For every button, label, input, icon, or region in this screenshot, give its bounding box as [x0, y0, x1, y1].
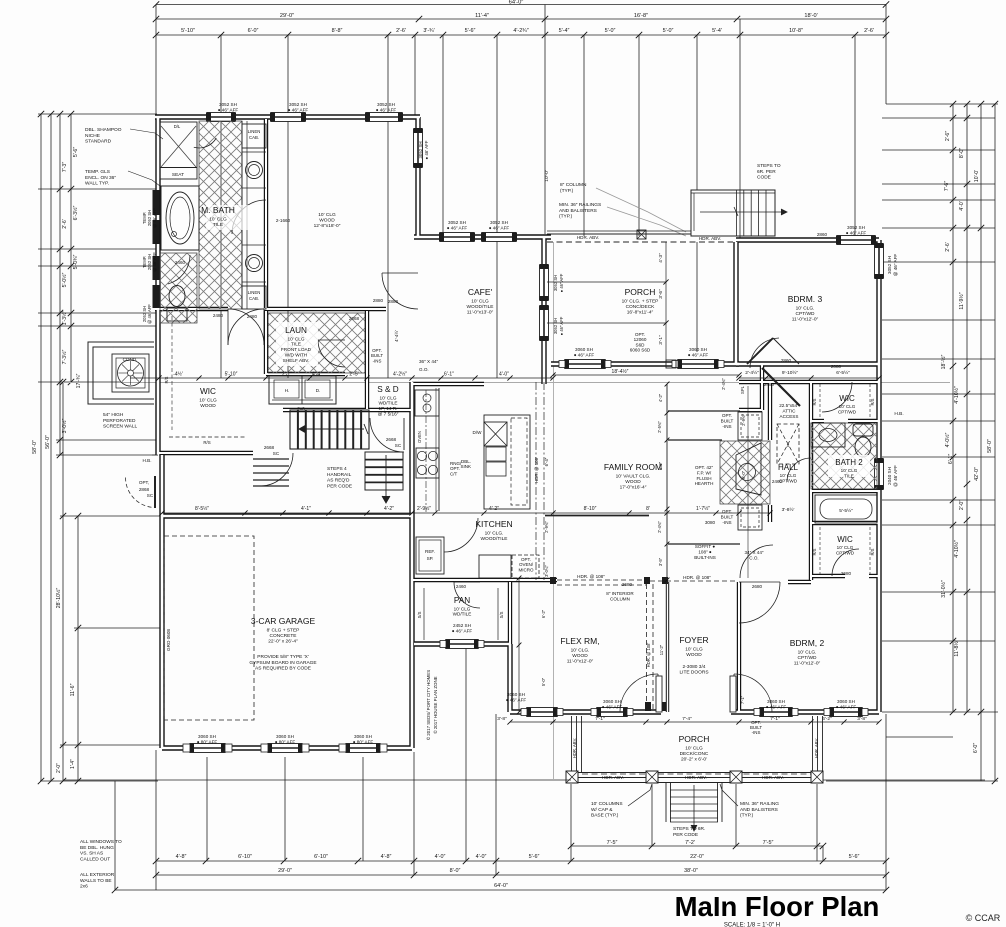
svg-text:OPT.: OPT. [722, 413, 732, 418]
svg-text:FLUSH: FLUSH [696, 476, 711, 481]
svg-text:5'-6″: 5'-6″ [73, 147, 79, 157]
svg-text:2'-6': 2'-6' [396, 28, 406, 34]
svg-text:10' CLG. + STEP: 10' CLG. + STEP [622, 298, 659, 304]
svg-text:3'-8″: 3'-8″ [497, 716, 507, 722]
svg-text:3080: 3080 [705, 520, 716, 525]
svg-text:2'-0″: 2'-0″ [959, 500, 965, 510]
svg-text:5'-0″: 5'-0″ [663, 28, 674, 34]
svg-text:WOOD: WOOD [686, 652, 702, 658]
svg-text:BUILT-INS: BUILT-INS [694, 555, 716, 560]
svg-text:3'-0¼″: 3'-0¼″ [544, 565, 549, 577]
svg-text:© CCAR: © CCAR [966, 913, 1001, 923]
svg-text:FLEX RM,: FLEX RM, [560, 636, 599, 646]
svg-text:D/L: D/L [174, 124, 181, 129]
svg-text:SOFFIT ●: SOFFIT ● [695, 544, 716, 549]
svg-text:PERFORATED: PERFORATED [103, 418, 136, 424]
svg-text:17'-¾″: 17'-¾″ [76, 374, 82, 389]
svg-text:54″ HIGH: 54″ HIGH [103, 412, 124, 418]
svg-text:CAB.: CAB. [249, 135, 259, 140]
svg-text:BATH 2: BATH 2 [835, 458, 863, 467]
svg-text:2'-5': 2'-5' [349, 372, 358, 378]
svg-text:● 80″ AFF: ● 80″ AFF [197, 739, 218, 744]
svg-text:2880: 2880 [373, 298, 384, 303]
svg-text:1P, 14 R.: 1P, 14 R. [379, 406, 398, 411]
svg-text:8'-0″: 8'-0″ [450, 868, 461, 874]
svg-text:4'-2″: 4'-2″ [658, 393, 663, 402]
svg-text:7'-5″: 7'-5″ [763, 840, 774, 846]
svg-text:2'-4¾″: 2'-4¾″ [657, 521, 662, 533]
svg-text:3060 SH: 3060 SH [198, 734, 216, 739]
svg-text:FOYER: FOYER [679, 635, 708, 645]
svg-text:6'-2″: 6'-2″ [822, 716, 832, 722]
svg-text:WIC: WIC [839, 394, 855, 403]
svg-text:6060 S6D: 6060 S6D [630, 348, 651, 353]
svg-text:3060 SH: 3060 SH [276, 734, 294, 739]
svg-text:5'-5½″: 5'-5½″ [839, 507, 853, 514]
svg-text:● 46' AFF: ● 46' AFF [424, 140, 429, 159]
svg-text:4'-10½″: 4'-10½″ [953, 386, 960, 404]
svg-text:8″ INTERIOR: 8″ INTERIOR [606, 591, 634, 596]
svg-text:CONC/DECK: CONC/DECK [626, 304, 656, 310]
svg-text:6'-4″: 6'-4″ [544, 457, 549, 466]
svg-text:SC: SC [395, 443, 402, 448]
svg-text:S/S: S/S [417, 611, 422, 618]
svg-text:2480: 2480 [247, 314, 258, 319]
svg-text:22.5″x54″: 22.5″x54″ [779, 403, 799, 408]
svg-text:3'-8½': 3'-8½' [782, 506, 795, 513]
svg-text:11'-0″x12'-0″: 11'-0″x12'-0″ [792, 317, 819, 323]
svg-text:8″ COLUMN: 8″ COLUMN [560, 182, 587, 188]
svg-text:CAB.: CAB. [249, 296, 259, 301]
svg-text:34″ X 44″: 34″ X 44″ [744, 550, 763, 555]
svg-text:8'-8″: 8'-8″ [332, 28, 343, 34]
svg-text:10' VAULT CLG.: 10' VAULT CLG. [616, 473, 651, 479]
svg-text:R/S: R/S [164, 376, 169, 383]
svg-text:6'-3½″: 6'-3½″ [72, 206, 79, 221]
svg-text:3052 SH: 3052 SH [448, 220, 466, 225]
svg-text:3052 SH: 3052 SH [490, 220, 508, 225]
svg-text:2452 SH: 2452 SH [453, 623, 471, 628]
svg-text:5'-4': 5'-4' [712, 28, 722, 34]
svg-text:8'-5½″: 8'-5½″ [195, 505, 209, 512]
svg-text:(TYP.): (TYP.) [740, 813, 754, 819]
svg-text:10' CLG: 10' CLG [199, 397, 217, 403]
svg-text:TILE: TILE [213, 222, 223, 228]
svg-text:DBL. SHAMPOO: DBL. SHAMPOO [85, 127, 122, 133]
svg-text:4'-8″: 4'-8″ [381, 854, 392, 860]
svg-text:22'-0″ x 26'-4″: 22'-0″ x 26'-4″ [268, 639, 298, 645]
svg-text:7'-1″: 7'-1″ [595, 716, 605, 722]
svg-text:31'-0½″: 31'-0½″ [940, 580, 947, 598]
svg-text:OPT.: OPT. [722, 509, 732, 514]
svg-text:3060 SH: 3060 SH [689, 347, 707, 352]
svg-text:2860: 2860 [817, 232, 828, 237]
svg-text:10' CLG: 10' CLG [780, 473, 797, 478]
svg-text:● 46″ AFF: ● 46″ AFF [836, 704, 857, 709]
svg-text:10' CLG: 10' CLG [379, 395, 396, 400]
svg-text:LITE DOORS: LITE DOORS [679, 670, 708, 676]
svg-text:3052 SH: 3052 SH [847, 225, 865, 230]
svg-text:MaIn Floor Plan: MaIn Floor Plan [675, 891, 880, 922]
svg-text:108″ ●: 108″ ● [698, 549, 712, 554]
svg-text:4'-8″: 4'-8″ [176, 854, 187, 860]
svg-text:C.O.: C.O. [749, 555, 758, 560]
svg-text:2-3080 3/4: 2-3080 3/4 [683, 664, 706, 670]
svg-text:● 46″ AFF: ● 46″ AFF [846, 230, 867, 235]
svg-text:3052 SH: 3052 SH [553, 318, 558, 334]
svg-text:● 46″ AFF: ● 46″ AFF [559, 273, 564, 292]
svg-text:HDR. ABV.: HDR. ABV. [602, 775, 624, 780]
svg-text:2868: 2868 [139, 487, 150, 492]
svg-text:MIN. 36″ RAILING: MIN. 36″ RAILING [740, 801, 779, 807]
svg-text:10' CLG.: 10' CLG. [571, 647, 590, 653]
svg-text:(TYP.): (TYP.) [560, 188, 574, 194]
svg-text:● 46″ AFF: ● 46″ AFF [489, 225, 510, 230]
svg-text:H.: H. [285, 388, 290, 393]
svg-text:MICRO: MICRO [519, 567, 534, 572]
svg-text:38'-0″: 38'-0″ [684, 868, 698, 874]
svg-text:2668: 2668 [264, 445, 275, 450]
svg-text:3052 SH: 3052 SH [219, 102, 237, 107]
svg-text:(TYP.): (TYP.) [559, 214, 573, 220]
svg-text:LINEN: LINEN [248, 129, 261, 134]
svg-text:5'-0″: 5'-0″ [605, 28, 616, 34]
svg-text:3060 SH: 3060 SH [837, 699, 855, 704]
svg-text:2'-4¾″: 2'-4¾″ [721, 378, 726, 390]
svg-text:10' CLG: 10' CLG [454, 606, 471, 611]
svg-text:S & D: S & D [377, 385, 398, 394]
svg-text:@ 46' AFF: @ 46' AFF [152, 252, 157, 272]
svg-text:4'-2½″: 4'-2½″ [393, 371, 407, 378]
svg-text:CAFE': CAFE' [468, 287, 493, 297]
svg-text:2668: 2668 [386, 437, 397, 442]
svg-text:3060 SH: 3060 SH [603, 699, 621, 704]
svg-text:2'-6″: 2'-6″ [945, 131, 951, 141]
svg-text:3060 SH: 3060 SH [575, 347, 593, 352]
svg-text:GRO 0608: GRO 0608 [166, 629, 171, 651]
svg-text:R/S: R/S [870, 548, 875, 555]
svg-text:6'-10″: 6'-10″ [314, 854, 328, 860]
svg-text:GYPSUM BOARD IN GARAGE: GYPSUM BOARD IN GARAGE [249, 660, 316, 666]
svg-text:4'-4½': 4'-4½' [394, 330, 399, 342]
svg-text:CPT/WD: CPT/WD [796, 311, 815, 317]
svg-text:4'-0': 4'-0' [959, 201, 965, 210]
svg-text:R/S: R/S [203, 440, 210, 445]
svg-text:3-CAR GARAGE: 3-CAR GARAGE [251, 616, 316, 626]
svg-text:5'-6″: 5'-6″ [465, 28, 476, 34]
svg-text:STEPS TO 6R.: STEPS TO 6R. [673, 826, 705, 832]
svg-text:42'-0″: 42'-0″ [974, 467, 980, 481]
svg-text:WALL TYP.: WALL TYP. [85, 181, 109, 187]
svg-text:BUILT: BUILT [721, 418, 734, 423]
svg-text:4'-1″: 4'-1″ [301, 506, 311, 512]
svg-text:TILE: TILE [291, 342, 301, 347]
svg-text:VS. SH AS: VS. SH AS [80, 851, 103, 857]
svg-text:● 46″ AFF: ● 46″ AFF [376, 107, 397, 112]
svg-text:CONCRETE: CONCRETE [270, 633, 297, 639]
svg-text:LINEN: LINEN [248, 290, 261, 295]
svg-text:58'-0″: 58'-0″ [987, 439, 993, 453]
svg-text:H.B.: H.B. [143, 458, 152, 463]
svg-text:D.: D. [316, 388, 321, 393]
svg-text:6'-10″: 6'-10″ [238, 854, 252, 860]
svg-text:WD/TILE: WD/TILE [378, 401, 397, 406]
svg-text:10' CLG: 10' CLG [685, 745, 703, 751]
svg-text:22'-0″: 22'-0″ [690, 854, 704, 860]
svg-text:2'-9¾″: 2'-9¾″ [741, 414, 746, 426]
svg-text:5'-10″: 5'-10″ [225, 372, 238, 378]
svg-text:WOOD/TILE: WOOD/TILE [467, 304, 494, 310]
svg-text:4'-2¾″: 4'-2¾″ [513, 28, 528, 34]
svg-text:4'-10½″: 4'-10½″ [953, 540, 960, 558]
svg-text:PORCH: PORCH [625, 287, 656, 297]
svg-text:HDR. ABV.: HDR. ABV. [685, 775, 707, 780]
svg-text:10'-8″: 10'-8″ [789, 28, 803, 34]
svg-text:3052 SH: 3052 SH [289, 102, 307, 107]
svg-text:PAN: PAN [454, 596, 470, 605]
svg-text:STANDARD: STANDARD [85, 139, 112, 145]
svg-text:WOOD/TILE: WOOD/TILE [481, 536, 508, 542]
svg-text:3'-0½″: 3'-0½″ [61, 419, 68, 434]
svg-text:3060 SH: 3060 SH [507, 692, 525, 697]
svg-text:STEPS TO: STEPS TO [757, 163, 781, 169]
svg-text:● 80″ AFF: ● 80″ AFF [275, 739, 296, 744]
svg-text:2460: 2460 [456, 584, 467, 589]
svg-text:SCALE: 1/8 = 1'-0″ H: SCALE: 1/8 = 1'-0″ H [724, 923, 780, 927]
svg-text:2'-0″: 2'-0″ [56, 763, 62, 773]
svg-text:DECK/CONC: DECK/CONC [680, 751, 709, 757]
svg-text:HDR. @ 108″: HDR. @ 108″ [577, 574, 605, 579]
svg-text:SINK: SINK [460, 464, 471, 469]
svg-text:AND BALISTERS: AND BALISTERS [740, 807, 778, 813]
svg-text:TEMP. GLS: TEMP. GLS [85, 169, 110, 175]
svg-text:29'-0″: 29'-0″ [280, 13, 294, 19]
svg-text:6'-1″: 6'-1″ [444, 372, 454, 378]
svg-text:16'-8″: 16'-8″ [634, 13, 648, 19]
svg-text:HDR. ABV.: HDR. ABV. [577, 235, 599, 240]
svg-text:2480: 2480 [213, 313, 224, 318]
svg-text:11'-0″x13'-0″: 11'-0″x13'-0″ [467, 310, 494, 316]
svg-text:WOOD: WOOD [572, 653, 588, 659]
svg-text:@ 7 5/16″: @ 7 5/16″ [378, 411, 399, 416]
svg-text:10' CLG: 10' CLG [471, 298, 489, 304]
svg-text:3060 SH: 3060 SH [354, 734, 372, 739]
svg-text:17'-0″x16'-4″: 17'-0″x16'-4″ [620, 485, 647, 491]
svg-text:-INS: -INS [722, 424, 731, 429]
svg-text:HDR. @ 108': HDR. @ 108' [646, 643, 651, 668]
svg-text:STEPS 4: STEPS 4 [327, 466, 347, 472]
svg-text:18'-½″: 18'-½″ [940, 355, 947, 370]
svg-text:REF.: REF. [425, 549, 435, 554]
svg-text:1'-7½″: 1'-7½″ [696, 505, 710, 512]
svg-text:HDR. ABV.: HDR. ABV. [762, 775, 784, 780]
svg-text:4'-2″: 4'-2″ [489, 506, 499, 512]
svg-text:2080: 2080 [831, 364, 842, 369]
svg-text:@ 46' AFF: @ 46' AFF [893, 465, 898, 487]
svg-text:10'-0': 10'-0' [544, 170, 550, 182]
svg-text:10' CLG: 10' CLG [685, 646, 703, 652]
svg-text:FAMILY ROOM: FAMILY ROOM [604, 462, 662, 472]
svg-text:4'-0″: 4'-0″ [499, 372, 509, 378]
svg-text:4'-0″: 4'-0″ [435, 854, 446, 860]
svg-text:R/S: R/S [812, 398, 817, 405]
svg-text:1'-4″: 1'-4″ [70, 759, 76, 769]
svg-text:COLUMN: COLUMN [610, 596, 630, 601]
svg-text:8'-10″: 8'-10″ [584, 506, 597, 512]
svg-text:ALL WINDOWS TO: ALL WINDOWS TO [80, 839, 122, 845]
svg-text:2680: 2680 [622, 582, 633, 587]
svg-text:ALL EXTERIOR: ALL EXTERIOR [80, 872, 115, 878]
svg-text:4'-4″: 4'-4″ [312, 372, 322, 378]
svg-text:2'-6': 2'-6' [864, 28, 874, 34]
svg-text:11'-2″: 11'-2″ [659, 644, 664, 655]
svg-text:7'-2': 7'-2' [685, 840, 695, 846]
svg-text:2'-6': 2'-6' [62, 219, 68, 228]
svg-text:2'-9¾″: 2'-9¾″ [544, 521, 549, 533]
svg-text:18'-0': 18'-0' [804, 13, 817, 19]
svg-text:10' CLG: 10' CLG [318, 212, 336, 218]
svg-text:W/D WITH: W/D WITH [285, 352, 307, 357]
svg-text:CALLED OUT: CALLED OUT [80, 856, 110, 862]
svg-text:5'-0″: 5'-0″ [541, 677, 546, 686]
svg-text:F.P. W/: F.P. W/ [697, 470, 712, 475]
svg-text:2668: 2668 [349, 316, 360, 321]
svg-text:7'-3″: 7'-3″ [62, 162, 68, 172]
svg-text:@ 46' AFF: @ 46' AFF [147, 304, 152, 324]
svg-text:● 80″ AFF: ● 80″ AFF [353, 739, 374, 744]
svg-text:SEAT: SEAT [172, 172, 184, 178]
svg-text:SPL: SPL [740, 385, 745, 394]
svg-text:11'-6″: 11'-6″ [70, 683, 76, 696]
svg-text:SCREEN WALL: SCREEN WALL [103, 424, 138, 430]
svg-text:CPT/WD: CPT/WD [836, 551, 855, 556]
svg-text:29'-0″: 29'-0″ [278, 868, 292, 874]
svg-text:WALLS TO BE: WALLS TO BE [80, 878, 112, 884]
svg-text:BDRM, 2: BDRM, 2 [790, 638, 825, 648]
svg-text:64'-0″: 64'-0″ [494, 883, 508, 889]
svg-text:7'-6″: 7'-6″ [944, 181, 950, 191]
svg-text:2040 SH: 2040 SH [887, 467, 892, 485]
svg-text:SHELF ABV.: SHELF ABV. [283, 358, 309, 363]
svg-text:11'-0″x12'-0″: 11'-0″x12'-0″ [794, 661, 821, 667]
svg-text:AS REQUIRED BY CODE: AS REQUIRED BY CODE [255, 666, 311, 672]
svg-text:● 46″ AFF: ● 46″ AFF [218, 107, 239, 112]
svg-text:10' CLG: 10' CLG [209, 216, 227, 222]
svg-text:HDR. ABV.: HDR. ABV. [572, 738, 577, 758]
svg-text:2680: 2680 [752, 584, 763, 589]
svg-text:WOOD: WOOD [200, 403, 216, 409]
svg-text:R/S: R/S [812, 548, 817, 555]
svg-text:10'-0': 10'-0' [974, 170, 980, 182]
svg-text:COND.: COND. [123, 357, 138, 362]
svg-text:5'-10″: 5'-10″ [181, 28, 195, 34]
svg-text:WD/TILE: WD/TILE [453, 612, 472, 617]
svg-text:11'-0″x12'-0″: 11'-0″x12'-0″ [567, 659, 594, 665]
svg-text:SP.: SP. [427, 556, 434, 561]
svg-text:© 2017 SEDS/ PORT CITY HOMES: © 2017 SEDS/ PORT CITY HOMES [426, 670, 431, 740]
svg-text:6R. PER: 6R. PER [757, 169, 776, 175]
svg-text:28'-10½″: 28'-10½″ [55, 588, 62, 609]
svg-text:3'-6″: 3'-6″ [658, 289, 664, 299]
svg-text:2-1660: 2-1660 [276, 218, 291, 223]
svg-text:WOOD: WOOD [625, 479, 641, 485]
svg-text:8'-0″: 8'-0″ [959, 148, 965, 158]
svg-text:● 46″ AFF: ● 46″ AFF [574, 352, 595, 357]
svg-text:4'-0″: 4'-0″ [476, 854, 487, 860]
svg-text:HALL: HALL [778, 463, 799, 472]
svg-text:10' CLG.: 10' CLG. [796, 305, 815, 311]
svg-text:2460: 2460 [772, 479, 783, 484]
svg-text:7'-1″: 7'-1″ [740, 695, 745, 704]
svg-text:3052 SH: 3052 SH [887, 256, 892, 274]
svg-text:CPT/WD: CPT/WD [838, 410, 857, 415]
svg-text:HDR. @ 108': HDR. @ 108' [534, 457, 539, 483]
svg-text:10' CLG.: 10' CLG. [798, 649, 817, 655]
svg-text:OPT,: OPT, [139, 480, 149, 485]
svg-text:BDRM. 3: BDRM. 3 [788, 294, 823, 304]
svg-text:6'-1″: 6'-1″ [948, 454, 954, 464]
svg-text:2680: 2680 [841, 571, 852, 576]
svg-text:56'-0″: 56'-0″ [45, 435, 51, 449]
svg-text:● 46″ AFF: ● 46″ AFF [688, 352, 709, 357]
svg-text:3052 SH: 3052 SH [377, 102, 395, 107]
svg-text:● 46″ AFF: ● 46″ AFF [506, 697, 527, 702]
svg-text:6'-0″: 6'-0″ [741, 470, 746, 479]
svg-text:-INS: -INS [752, 730, 761, 735]
svg-text:ENCL. ON 36″: ENCL. ON 36″ [85, 175, 116, 181]
svg-text:M. BATH: M. BATH [201, 205, 235, 215]
svg-text:● 46″ AFF: ● 46″ AFF [288, 107, 309, 112]
svg-text:6'-5½″: 6'-5½″ [836, 369, 850, 376]
svg-text:OPT. 42″: OPT. 42″ [695, 465, 714, 470]
svg-text:3052 SH: 3052 SH [418, 141, 423, 158]
svg-text:S/S: S/S [499, 611, 504, 618]
svg-text:© 2017 HOUSE PLAN ZONE: © 2017 HOUSE PLAN ZONE [433, 676, 438, 733]
svg-text:3'-5″: 3'-5″ [658, 557, 663, 566]
svg-text:PER CODE: PER CODE [327, 483, 352, 489]
svg-text:8': 8' [646, 506, 650, 512]
svg-text:64′-0″: 64′-0″ [509, 0, 524, 6]
svg-text:AS REQ'D: AS REQ'D [327, 478, 350, 484]
svg-text:10' CLG.: 10' CLG. [485, 530, 504, 536]
svg-text:6'-0″: 6'-0″ [973, 743, 979, 753]
svg-text:2460: 2460 [175, 260, 186, 265]
svg-text:● 46″ AFF: ● 46″ AFF [452, 628, 473, 633]
svg-text:HEARTH: HEARTH [695, 481, 714, 486]
svg-text:2880: 2880 [388, 299, 399, 304]
svg-text:BE DBL. HUNG: BE DBL. HUNG [80, 845, 114, 851]
svg-text:20'-2″ x 6'-0': 20'-2″ x 6'-0' [681, 757, 707, 763]
svg-text:2480: 2480 [764, 382, 775, 387]
svg-text:OVEN: OVEN [417, 431, 422, 443]
svg-text:10' CLG: 10' CLG [837, 545, 854, 550]
svg-text:11'-8½″: 11'-8½″ [953, 639, 960, 656]
svg-text:18'-4½″: 18'-4½″ [612, 368, 629, 375]
svg-text:● 46″ AFF: ● 46″ AFF [559, 316, 564, 335]
svg-text:WOOD: WOOD [319, 218, 335, 224]
svg-text:4'-2″: 4'-2″ [384, 506, 394, 512]
svg-text:SC: SC [273, 451, 280, 456]
svg-text:ACCESS: ACCESS [780, 414, 799, 419]
svg-text:4'-3″: 4'-3″ [658, 253, 664, 263]
svg-text:16'-8″x11'-4″: 16'-8″x11'-4″ [627, 310, 654, 316]
svg-text:3060 SH: 3060 SH [767, 699, 785, 704]
svg-text:6'-0″: 6'-0″ [248, 28, 259, 34]
svg-text:CPT/WD: CPT/WD [798, 655, 817, 661]
svg-text:@ 46' AFF: @ 46' AFF [152, 208, 157, 228]
svg-text:12'-8″x18'-0″: 12'-8″x18'-0″ [314, 223, 341, 229]
svg-text:FRONT LOAD: FRONT LOAD [281, 347, 312, 352]
